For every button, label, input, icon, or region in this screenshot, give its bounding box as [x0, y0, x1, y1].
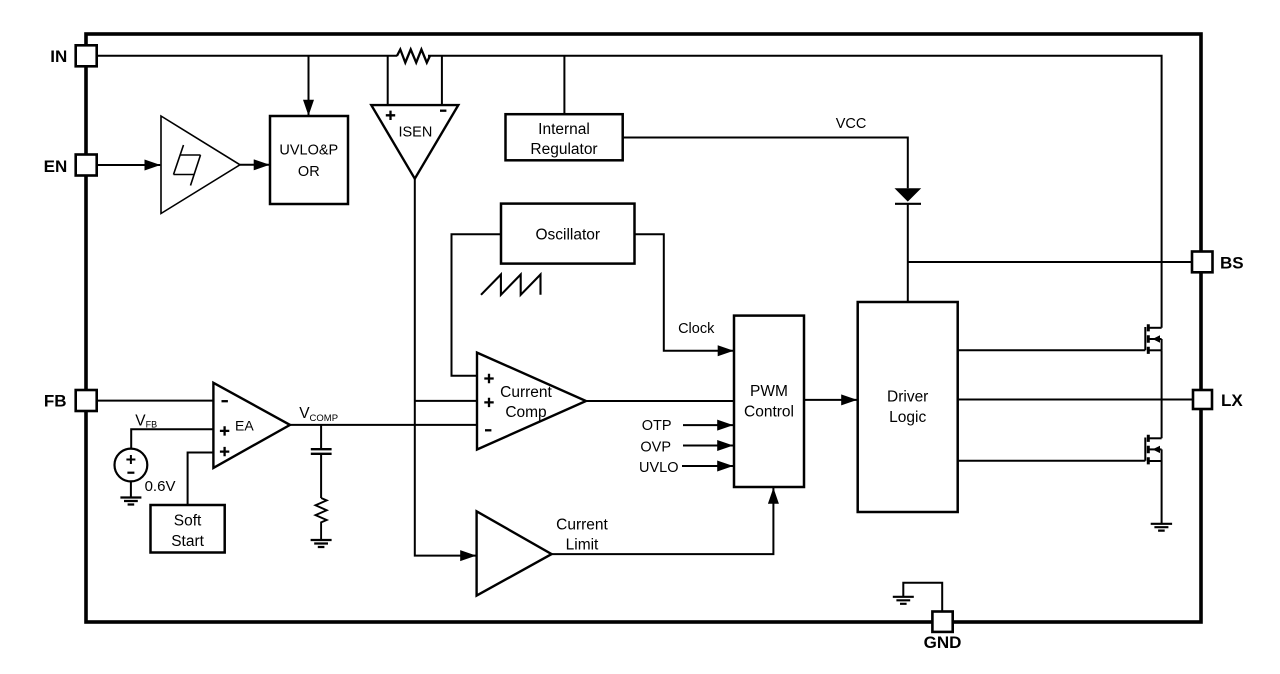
svg-text:VFB: VFB [135, 413, 157, 430]
svg-text:OTP: OTP [642, 418, 672, 434]
svg-text:Regulator: Regulator [530, 141, 597, 158]
svg-text:Limit: Limit [566, 536, 599, 553]
svg-text:OR: OR [298, 164, 320, 180]
svg-text:0.6V: 0.6V [145, 478, 176, 495]
svg-text:VCC: VCC [836, 116, 867, 132]
svg-text:OVP: OVP [640, 439, 671, 455]
svg-text:Current: Current [500, 384, 552, 401]
svg-text:EA: EA [235, 418, 254, 434]
svg-text:Clock: Clock [678, 321, 715, 337]
svg-text:Internal: Internal [538, 121, 590, 138]
svg-text:Control: Control [744, 404, 794, 421]
svg-text:FB: FB [44, 392, 67, 411]
svg-text:Logic: Logic [889, 409, 926, 426]
svg-text:Comp: Comp [505, 404, 546, 421]
svg-text:Start: Start [171, 533, 204, 550]
svg-text:UVLO: UVLO [639, 460, 679, 476]
svg-text:EN: EN [44, 157, 68, 176]
svg-text:BS: BS [1220, 254, 1244, 273]
svg-text:UVLO&P: UVLO&P [279, 143, 338, 159]
svg-text:VCOMP: VCOMP [299, 405, 338, 424]
svg-text:ISEN: ISEN [398, 125, 432, 141]
svg-text:LX: LX [1221, 391, 1243, 410]
svg-text:GND: GND [924, 633, 962, 652]
svg-text:Soft: Soft [174, 512, 202, 529]
svg-text:IN: IN [50, 47, 67, 66]
svg-text:Driver: Driver [887, 388, 928, 405]
svg-text:Current: Current [556, 517, 608, 534]
svg-text:Oscillator: Oscillator [535, 227, 600, 244]
svg-text:PWM: PWM [750, 383, 788, 400]
